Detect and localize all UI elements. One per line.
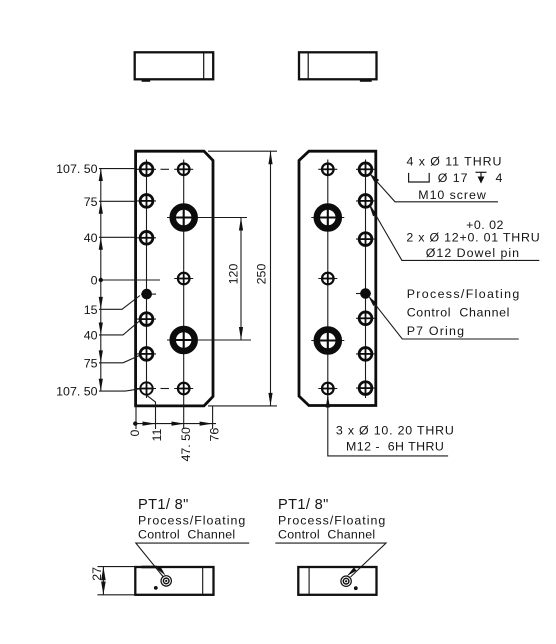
svg-text:Ø12 Dowel pin: Ø12 Dowel pin: [426, 246, 520, 260]
bottom left view labels: [138, 497, 189, 513]
annotation 3xO10.20 text: [336, 424, 455, 454]
svg-text:4: 4: [496, 171, 504, 185]
svg-text:0: 0: [128, 430, 142, 437]
bottom dim zero dot: [133, 421, 137, 425]
svg-text:Process/Floating: Process/Floating: [138, 514, 246, 528]
svg-text:Control Channel: Control Channel: [278, 527, 375, 541]
process dot right plate: [360, 288, 371, 299]
left dimension chain line: [99, 169, 160, 392]
annotation process/floating leader: [370, 297, 519, 339]
svg-text:M12 - 6H THRU: M12 - 6H THRU: [346, 439, 444, 453]
dim 27: [98, 567, 136, 595]
bold hole crosses left plate: [141, 164, 370, 394]
right plate outline: [299, 151, 376, 405]
top side view right plate: [299, 52, 377, 80]
svg-text:76: 76: [208, 428, 222, 442]
svg-text:Control Channel: Control Channel: [138, 527, 235, 541]
svg-text:3 x Ø 10. 20 THRU: 3 x Ø 10. 20 THRU: [336, 424, 455, 438]
bottom dim labels: [128, 427, 221, 462]
svg-text:40: 40: [84, 329, 98, 343]
svg-text:PT1/ 8": PT1/ 8": [138, 497, 189, 513]
svg-text:27: 27: [90, 567, 104, 581]
svg-text:47. 50: 47. 50: [179, 427, 193, 462]
holes right plate column R: [359, 163, 372, 395]
bottom left view leader: [136, 543, 249, 576]
svg-text:11: 11: [150, 429, 164, 442]
bottom dimension line: [135, 395, 216, 429]
depth symbol: [476, 172, 487, 182]
left dimension labels: [56, 162, 97, 399]
process dot left plate: [141, 289, 152, 300]
bold crosses large holes: [171, 205, 341, 354]
svg-text:15: 15: [84, 303, 98, 317]
svg-text:107. 50: 107. 50: [56, 385, 97, 399]
left plate outline: [136, 151, 213, 406]
hole crosshairs right plate: [311, 169, 375, 388]
svg-text:Control Channel: Control Channel: [407, 305, 510, 319]
svg-text:Process/Floating: Process/Floating: [278, 514, 386, 528]
bottom dim arrows: [143, 422, 213, 426]
holes right plate column L: [317, 164, 339, 395]
svg-text:P7 Oring: P7 Oring: [407, 324, 466, 338]
dim 120: [240, 218, 242, 341]
counterbore symbol: [409, 173, 430, 182]
annotation 4xO11 text: [407, 154, 504, 202]
svg-text:Process/Floating: Process/Floating: [407, 287, 521, 301]
svg-text:107. 50: 107. 50: [56, 162, 97, 176]
bottom right side view: [298, 567, 376, 595]
holes left plate column A: [140, 163, 153, 395]
svg-text:120: 120: [227, 264, 241, 285]
svg-text:Ø 17: Ø 17: [438, 171, 469, 185]
annotation 2xO12 dowel leader: [371, 207, 540, 261]
annotation process/floating text: [407, 287, 521, 338]
chain arrows: [99, 169, 103, 392]
bottom right view leader: [275, 543, 386, 577]
svg-text:250: 250: [254, 264, 268, 285]
svg-text:PT1/ 8": PT1/ 8": [278, 497, 329, 513]
annotation 3xO10.20 leader: [328, 397, 448, 456]
hole crosshairs left plate: [137, 169, 251, 388]
top side view left plate: [135, 52, 214, 80]
holes left plate column B: [173, 164, 195, 395]
svg-text:75: 75: [84, 356, 98, 370]
svg-text:2 x Ø 12+0. 01 THRU: 2 x Ø 12+0. 01 THRU: [406, 230, 540, 244]
annotation 2xO12 text: [406, 218, 540, 260]
svg-text:40: 40: [84, 231, 98, 245]
bottom left port: [161, 576, 171, 586]
annotation 4xO11 THRU leader: [371, 175, 499, 202]
chain zero dot: [99, 278, 103, 282]
bottom right port: [341, 576, 351, 586]
svg-text:M10 screw: M10 screw: [418, 188, 486, 202]
dim 250: [208, 151, 277, 406]
bottom right view labels: [278, 497, 329, 513]
bottom left side view: [135, 567, 213, 595]
svg-text:75: 75: [84, 195, 98, 209]
svg-text:4 x Ø 11 THRU: 4 x Ø 11 THRU: [407, 154, 503, 168]
centerlines: [147, 160, 366, 430]
svg-text:0: 0: [91, 274, 98, 288]
